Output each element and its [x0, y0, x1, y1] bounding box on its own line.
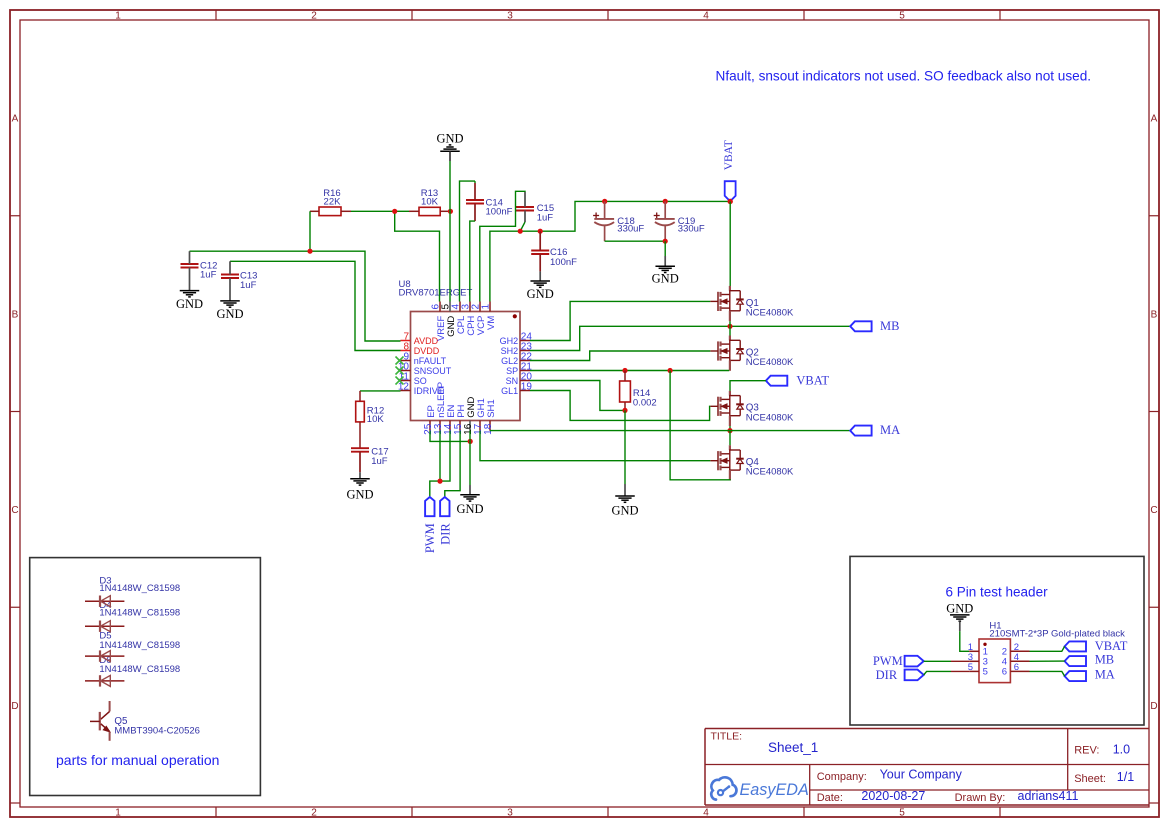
svg-text:D: D	[11, 701, 18, 712]
dir flag bottom	[440, 497, 449, 516]
svg-text:5: 5	[899, 11, 905, 22]
svg-text:2: 2	[311, 11, 317, 22]
svg-text:18: 18	[483, 423, 494, 435]
svg-text:1N4148W_C81598: 1N4148W_C81598	[99, 664, 180, 675]
dir flag hdr	[905, 670, 924, 681]
svg-text:1N4148W_C81598: 1N4148W_C81598	[99, 608, 180, 619]
svg-text:1: 1	[115, 808, 121, 819]
gnd symbol H1	[950, 614, 970, 616]
svg-text:4: 4	[703, 11, 709, 22]
wire R16-R13 VREF net	[351, 210, 395, 212]
svg-text:B: B	[1151, 309, 1158, 320]
svg-text:B: B	[12, 309, 19, 320]
manual parts box	[30, 558, 261, 796]
svg-text:NCE4080K: NCE4080K	[746, 467, 794, 478]
test header box	[850, 556, 1144, 725]
wire ma hdr	[1030, 671, 1065, 676]
gnd symbol C13	[220, 300, 240, 302]
svg-text:1uF: 1uF	[200, 270, 217, 281]
capacitor C18	[593, 215, 599, 217]
svg-text:DIR: DIR	[876, 668, 898, 682]
svg-text:D: D	[1150, 701, 1157, 712]
svg-text:Nfault, snsout indicators not: Nfault, snsout indicators not used. SO f…	[716, 69, 1092, 84]
wire R16 left down	[309, 211, 311, 251]
junction MA node	[727, 428, 732, 433]
junction EP-gnd	[468, 439, 473, 444]
wire pin16 gnd down	[469, 431, 471, 485]
svg-text:SN: SN	[506, 376, 519, 386]
wire SN	[530, 381, 625, 411]
pwm flag bottom	[425, 497, 434, 516]
svg-text:GH2: GH2	[500, 336, 519, 346]
wire Q3 source to MA	[729, 426, 731, 431]
wire VBAT down to Q1	[729, 202, 731, 287]
svg-text:C: C	[11, 505, 18, 516]
svg-text:GL2: GL2	[501, 356, 518, 366]
svg-text:5: 5	[899, 808, 905, 819]
svg-text:SP: SP	[506, 366, 518, 376]
svg-text:GND: GND	[176, 297, 203, 311]
svg-text:nFAULT: nFAULT	[414, 356, 447, 366]
wire DVDD bus	[230, 261, 401, 350]
svg-text:210SMT-2*3P Gold-plated black: 210SMT-2*3P Gold-plated black	[989, 629, 1125, 640]
svg-text:100nF: 100nF	[486, 207, 513, 218]
resistor R12	[356, 401, 365, 422]
svg-text:1: 1	[115, 11, 121, 22]
capacitor C19	[654, 215, 660, 217]
resistor R13	[419, 207, 440, 215]
header H1 body	[979, 639, 1010, 683]
svg-text:1N4148W_C81598: 1N4148W_C81598	[99, 640, 180, 651]
mb flag	[850, 321, 871, 331]
svg-text:REV:: REV:	[1074, 744, 1099, 756]
gnd symbol C17	[350, 478, 370, 480]
svg-text:4: 4	[703, 808, 709, 819]
transistor Q5	[109, 701, 111, 711]
gnd wire C18C19	[664, 241, 666, 256]
gnd symbol C16	[530, 280, 550, 282]
diode D6	[85, 680, 124, 682]
svg-text:EasyEDA: EasyEDA	[740, 781, 809, 799]
svg-text:SNSOUT: SNSOUT	[414, 366, 452, 376]
mb flag hdr	[1065, 656, 1086, 666]
wire vbat hdr	[1030, 646, 1065, 651]
svg-text:GND: GND	[346, 488, 373, 502]
svg-text:NCE4080K: NCE4080K	[746, 307, 794, 318]
junction R16/AVDD	[307, 249, 312, 254]
diode D3	[85, 600, 124, 602]
capacitor C12	[181, 263, 199, 265]
gnd symbol pin16	[460, 494, 480, 496]
junction R13-GND net	[448, 209, 453, 214]
svg-text:Sheet:: Sheet:	[1074, 773, 1106, 785]
svg-text:PWM: PWM	[873, 654, 903, 668]
header pins	[969, 650, 979, 652]
svg-text:NCE4080K: NCE4080K	[746, 357, 794, 368]
wire DIR net	[445, 431, 460, 497]
svg-text:GND: GND	[527, 287, 554, 301]
junction SP-Q4loop	[668, 368, 673, 373]
vbat flag hdr	[1065, 641, 1086, 651]
svg-text:6 Pin test header: 6 Pin test header	[946, 585, 1049, 600]
ic U8 body	[411, 312, 521, 421]
svg-text:10K: 10K	[421, 197, 439, 208]
svg-text:1uF: 1uF	[371, 456, 388, 467]
wire Q4 drain	[729, 431, 731, 446]
svg-text:C: C	[1150, 505, 1157, 516]
svg-text:330uF: 330uF	[678, 223, 705, 234]
diode D4	[85, 625, 124, 627]
transistor Q3	[729, 391, 731, 396]
junction SN node	[622, 408, 627, 413]
wire C18-C19 bottom	[605, 240, 666, 242]
svg-text:3: 3	[507, 808, 513, 819]
junction MB node	[727, 324, 732, 329]
wire SH2 to MB	[530, 326, 850, 350]
svg-text:1uF: 1uF	[240, 280, 257, 291]
svg-text:MA: MA	[880, 423, 900, 437]
wire AVDD bus	[190, 251, 401, 341]
pwm flag hdr	[905, 656, 924, 667]
svg-text:TITLE:: TITLE:	[711, 731, 743, 743]
wire CPH pin3	[470, 221, 475, 301]
wire GL2 to Q2 gate	[530, 351, 710, 361]
svg-text:10K: 10K	[367, 414, 385, 425]
svg-text:NCE4080K: NCE4080K	[746, 412, 794, 423]
easyeda logo	[711, 777, 736, 799]
svg-text:GND: GND	[216, 307, 243, 321]
svg-text:MB: MB	[880, 319, 899, 333]
svg-text:MA: MA	[1095, 667, 1115, 681]
svg-text:VBAT: VBAT	[1095, 639, 1128, 653]
svg-text:6: 6	[1002, 667, 1007, 678]
wire GH2 to Q1 gate	[530, 301, 710, 340]
svg-text:1.0: 1.0	[1113, 742, 1130, 756]
svg-text:DRV8701ERGET: DRV8701ERGET	[399, 287, 473, 298]
svg-text:SO: SO	[414, 376, 427, 386]
svg-text:Drawn By:: Drawn By:	[955, 792, 1006, 804]
junction VBAT	[728, 199, 733, 204]
svg-text:Company:: Company:	[817, 771, 867, 783]
svg-text:VM: VM	[486, 316, 497, 330]
junction PWM	[437, 479, 442, 484]
vbat symbol top	[725, 181, 736, 200]
svg-text:100nF: 100nF	[550, 257, 577, 268]
svg-text:GND: GND	[436, 132, 463, 146]
wire GL1 to Q3 gate	[530, 391, 710, 421]
junction C18	[602, 199, 607, 204]
svg-text:adrians411: adrians411	[1018, 789, 1079, 803]
wire SP row	[530, 370, 729, 372]
wire pin13 down	[439, 431, 441, 481]
resistor R14	[620, 381, 631, 402]
capacitor C14	[466, 199, 484, 201]
svg-text:1uF: 1uF	[537, 213, 554, 224]
wire mb hdr	[1030, 660, 1065, 662]
svg-text:GND: GND	[611, 503, 638, 517]
gnd symbol C18C19	[655, 265, 675, 267]
junction VREF	[392, 209, 397, 214]
wire dir	[924, 671, 951, 675]
transistor Q4	[729, 445, 731, 450]
svg-text:PWM: PWM	[423, 523, 437, 553]
wire EP to gnd	[430, 431, 470, 442]
wire Q1 source	[729, 321, 731, 326]
svg-text:A: A	[1151, 114, 1158, 125]
svg-text:A: A	[12, 114, 19, 125]
svg-text:330uF: 330uF	[617, 223, 644, 234]
wire VREF pin6	[395, 211, 440, 301]
ic U8 top pins 1-6	[439, 302, 441, 312]
svg-text:6: 6	[1014, 662, 1019, 673]
resistor R16	[319, 207, 341, 216]
transistor Q2	[729, 336, 731, 341]
ic U8 left pins 7-12	[401, 340, 411, 342]
svg-text:Sheet_1: Sheet_1	[768, 740, 818, 755]
svg-text:DVDD: DVDD	[414, 346, 440, 356]
junction C16 top	[538, 229, 543, 234]
svg-text:22K: 22K	[324, 197, 342, 208]
capacitor C16	[531, 250, 549, 252]
ma flag hdr	[1065, 671, 1086, 681]
svg-text:VBAT: VBAT	[723, 140, 735, 170]
wire MA row	[490, 430, 850, 432]
wire CPL pin4	[460, 181, 476, 301]
svg-text:DIR: DIR	[438, 523, 452, 545]
svg-text:GND: GND	[652, 272, 679, 286]
svg-text:3: 3	[507, 11, 513, 22]
transistor Q1	[729, 286, 731, 291]
gnd symbol C12	[180, 290, 200, 292]
junction C15 bottom	[518, 229, 523, 234]
ic U8 right pins 19-24	[520, 340, 530, 342]
diode D5	[85, 655, 124, 657]
wire GH1 to Q4 gate	[480, 431, 710, 461]
gnd symbol R14	[615, 495, 635, 497]
title block grid	[705, 728, 1149, 730]
junction C19 gnd	[663, 239, 668, 244]
svg-text:5: 5	[983, 667, 988, 678]
wire SN to gnd	[624, 410, 626, 484]
wire PWM net	[430, 431, 450, 498]
capacitor C13	[221, 274, 239, 276]
vbat flag mid	[766, 376, 787, 386]
svg-text:GND: GND	[456, 502, 483, 516]
wire Q4 source loop	[670, 371, 730, 481]
svg-text:MMBT3904-C20526: MMBT3904-C20526	[114, 725, 200, 736]
svg-text:1/1: 1/1	[1117, 770, 1134, 784]
junction C19	[663, 199, 668, 204]
no-connect X marks pins 9-11	[396, 357, 404, 365]
wire VCP pin2	[480, 191, 525, 301]
svg-text:Your Company: Your Company	[880, 768, 963, 782]
svg-text:1N4148W_C81598: 1N4148W_C81598	[99, 583, 180, 594]
svg-text:0.002: 0.002	[633, 397, 657, 408]
svg-text:SH2: SH2	[501, 346, 519, 356]
wire IDRIVE to R12	[360, 390, 401, 392]
ma flag	[850, 426, 871, 436]
svg-text:GL1: GL1	[501, 386, 518, 396]
wire VM bus	[490, 201, 730, 301]
wire gnd to pin1	[959, 621, 961, 631]
svg-text:2: 2	[311, 808, 317, 819]
svg-text:VBAT: VBAT	[796, 374, 829, 388]
svg-text:1: 1	[481, 304, 492, 310]
svg-text:SH1: SH1	[486, 399, 497, 417]
svg-text:parts for manual operation: parts for manual operation	[56, 752, 219, 768]
ic U8 bottom pins	[429, 421, 431, 431]
svg-text:MB: MB	[1095, 653, 1114, 667]
svg-text:GND: GND	[946, 601, 973, 615]
wire Q2 drain	[729, 326, 731, 335]
svg-text:2020-08-27: 2020-08-27	[861, 789, 925, 803]
capacitor C17	[351, 447, 369, 449]
svg-text:Date:: Date:	[817, 792, 843, 804]
wire VBAT to Q3	[730, 381, 766, 391]
gnd symbol top	[440, 150, 460, 152]
wire pwm	[924, 660, 951, 662]
junction SP-R14	[622, 368, 627, 373]
capacitor C15	[516, 206, 534, 208]
